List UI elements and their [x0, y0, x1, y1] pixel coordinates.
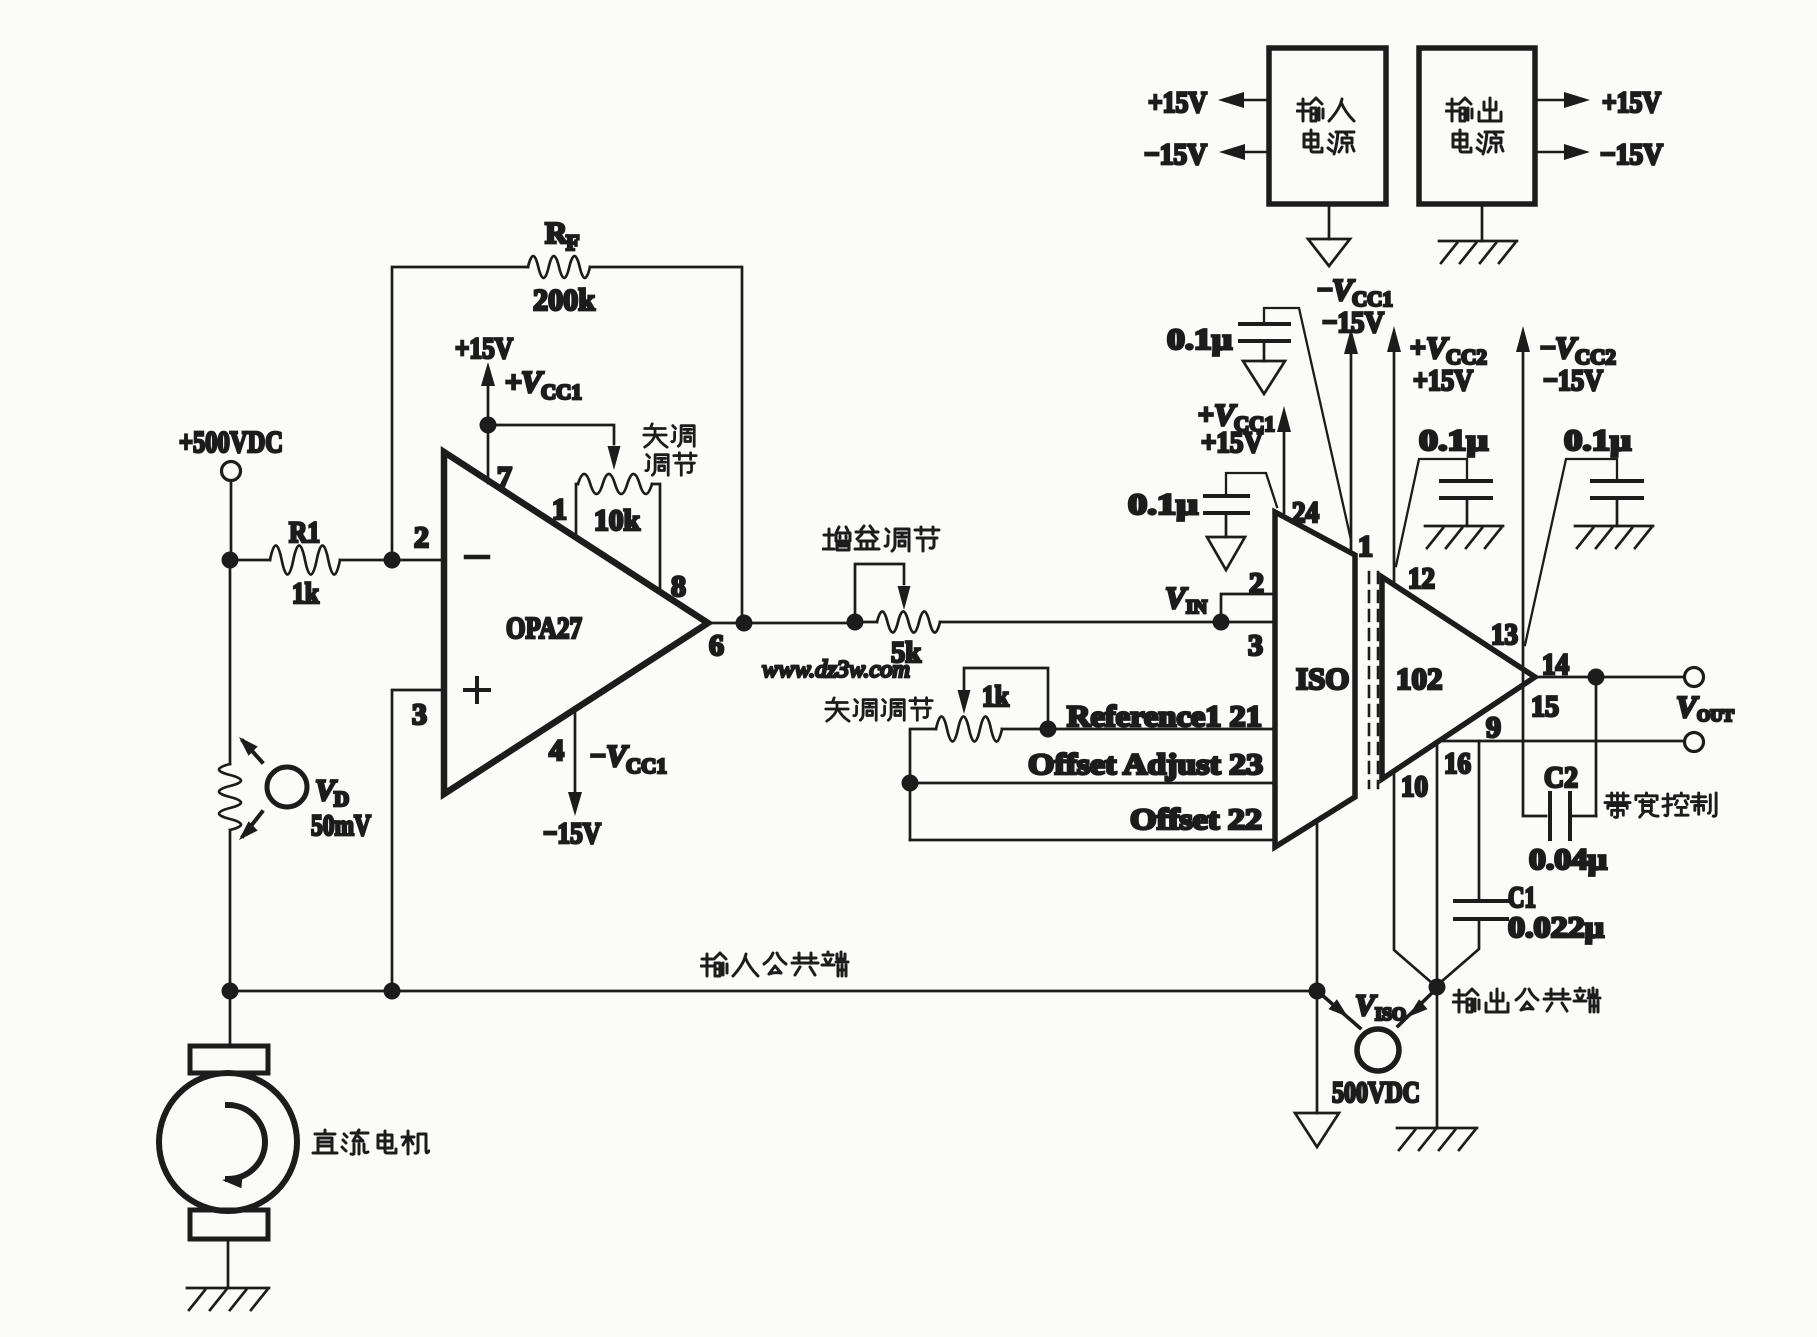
pin 7 label	[497, 461, 512, 494]
pin 8 label	[671, 570, 686, 603]
svg-text:8: 8	[671, 570, 686, 603]
node I offset-adjust junction	[902, 775, 919, 792]
svg-text:12: 12	[1408, 562, 1435, 595]
svg-text:500VDC: 500VDC	[1332, 1076, 1420, 1109]
power -VCC2 -15V arrow at pin 13	[1516, 326, 1616, 816]
wire output box to earth	[1481, 204, 1484, 241]
svg-text:−: −	[1540, 333, 1556, 364]
svg-text:V: V	[1676, 689, 1699, 724]
svg-text:9: 9	[1486, 711, 1501, 744]
svg-text:F: F	[566, 230, 579, 255]
arrow +15V (output box)	[1535, 86, 1661, 119]
label ISO	[1296, 661, 1349, 696]
svg-text:+500VDC: +500VDC	[179, 424, 283, 459]
ground (analog) below 0.1u pin24 cap	[1207, 537, 1245, 570]
svg-text:10k: 10k	[594, 504, 640, 537]
label input power	[1297, 98, 1354, 154]
svg-text:CC1: CC1	[626, 754, 667, 778]
pin 13 label	[1491, 618, 1518, 651]
svg-text:7: 7	[497, 461, 512, 494]
resistor RF 200k	[528, 215, 596, 317]
wire pin 9 line	[1441, 740, 1684, 743]
svg-text:1k: 1k	[292, 577, 319, 610]
svg-text:−: −	[590, 741, 606, 772]
svg-text:ISO: ISO	[1296, 661, 1349, 696]
node M motor junction	[222, 983, 239, 1000]
svg-text:0.1μ: 0.1μ	[1564, 424, 1631, 457]
svg-text:Reference1 21: Reference1 21	[1067, 700, 1262, 733]
power +VCC2 +15V arrow at pin 12	[1387, 326, 1487, 584]
pin 9 label	[1486, 711, 1501, 744]
svg-text:1k: 1k	[982, 680, 1009, 713]
pin 3 label	[412, 698, 427, 731]
capacitor C2 bandwidth	[1529, 685, 1607, 876]
earth ground below 0.1u pin13 cap	[1575, 526, 1653, 548]
svg-text:V: V	[1165, 580, 1188, 615]
terminal VOUT+	[1685, 668, 1704, 687]
svg-text:3: 3	[412, 698, 427, 731]
svg-text:Offset Adjust 23: Offset Adjust 23	[1028, 748, 1263, 781]
svg-text:5k: 5k	[891, 636, 921, 669]
pin 10 label	[1401, 770, 1428, 803]
svg-text:OPA27: OPA27	[506, 610, 582, 645]
wire node C to 10k wiper	[496, 425, 621, 470]
label output common	[1453, 988, 1600, 1012]
wire Reference1 pin 21 line	[1002, 728, 1275, 731]
pin 24 label	[1292, 496, 1319, 529]
pin 4 label	[549, 734, 564, 767]
earth ground below 0.1u pin12 cap	[1425, 526, 1503, 548]
svg-text:+15V: +15V	[1413, 364, 1473, 397]
label input common	[701, 952, 848, 976]
node A junction	[222, 552, 239, 569]
earth ground output common	[1397, 1128, 1477, 1150]
arrow -15V (input box)	[1144, 138, 1269, 171]
capacitor C1	[1441, 741, 1604, 982]
svg-text:IN: IN	[1186, 597, 1207, 618]
source VISO 500VDC	[1322, 989, 1432, 1109]
pin 3 label ISO	[1248, 629, 1263, 662]
svg-text:−15V: −15V	[1144, 138, 1207, 171]
label VIN	[1165, 580, 1207, 618]
node F 5k pot left junction	[847, 614, 864, 631]
label bandwidth control	[1605, 793, 1716, 817]
svg-text:+15V: +15V	[455, 332, 513, 365]
svg-text:−15V: −15V	[543, 817, 601, 850]
terminal +500VDC	[179, 424, 283, 481]
wire input box to ground	[1328, 204, 1331, 239]
svg-text:0.1μ: 0.1μ	[1419, 424, 1488, 457]
resistor R1 1k	[239, 516, 384, 610]
wire 5k to ISO pin 3 (VIN line)	[940, 621, 1275, 624]
node G VIN junction	[1213, 614, 1230, 631]
svg-text:−15V: −15V	[1322, 306, 1384, 339]
svg-text:C1: C1	[1508, 881, 1536, 914]
wire input common to ground	[1316, 1000, 1319, 1113]
pin 1 label	[552, 493, 567, 526]
wire +500VDC down to node A	[230, 481, 233, 553]
pin 1 label ISO	[1358, 530, 1373, 563]
power +VCC1 +15V arrow at pin 24	[1198, 397, 1291, 516]
svg-text:+15V: +15V	[1201, 426, 1263, 459]
label offset adjust (op-amp)	[644, 424, 696, 475]
svg-text:3: 3	[1248, 629, 1263, 662]
node J output junction	[1588, 669, 1605, 686]
svg-text:R: R	[545, 215, 568, 250]
capacitor 0.1u at pin 13	[1525, 424, 1642, 645]
svg-text:R1: R1	[289, 516, 320, 549]
label 102	[1396, 661, 1443, 696]
ISO102 output section	[1382, 577, 1535, 779]
pin 12 label	[1408, 562, 1435, 595]
resistor motor-sense (VD tap)	[219, 764, 241, 830]
label gain adjust	[823, 526, 939, 551]
wire ISO input common stub	[1316, 822, 1319, 983]
power -VCC1 -15V arrow at pin 4	[543, 710, 667, 850]
potentiometer 10k offset null	[576, 474, 660, 590]
terminal VOUT-	[1685, 733, 1704, 752]
op-amp plus sign	[465, 678, 489, 702]
node K output common junction	[1429, 979, 1446, 996]
op-amp U1 OPA27	[444, 452, 708, 794]
svg-text:2: 2	[414, 521, 429, 554]
isolation barrier dashed	[1369, 572, 1378, 788]
wire Offset pin 22 line	[910, 839, 1275, 842]
ground (analog) input box	[1308, 239, 1350, 266]
svg-text:1: 1	[1358, 530, 1373, 563]
svg-text:50mV: 50mV	[311, 809, 371, 842]
svg-text:OUT: OUT	[1697, 706, 1735, 725]
source VD 50mV	[239, 737, 371, 842]
pin 2 label ISO	[1249, 567, 1264, 600]
svg-text:−15V: −15V	[1543, 364, 1603, 397]
label offset adjust (ISO)	[826, 698, 932, 721]
node C pin7 supply junction	[480, 417, 497, 434]
op-amp minus sign	[466, 555, 488, 560]
pin 16 label	[1444, 747, 1471, 780]
label DC motor	[313, 1130, 429, 1154]
wire op-amp output to 5k pot	[708, 622, 848, 625]
label output power	[1446, 98, 1503, 154]
capacitor 0.1u at pin 12	[1396, 424, 1491, 566]
pin 6 label	[709, 629, 724, 662]
svg-text:+15V: +15V	[1148, 86, 1207, 119]
capacitor 0.1u at pin 1	[1167, 308, 1351, 540]
node H reference junction	[1040, 721, 1057, 738]
wire output common to earth	[1436, 996, 1439, 1128]
wire motor to earth	[227, 1239, 230, 1288]
svg-text:0.1μ: 0.1μ	[1167, 323, 1232, 356]
svg-text:200k: 200k	[533, 282, 596, 317]
wire VD resistor down to common	[229, 830, 232, 983]
svg-text:10: 10	[1401, 770, 1428, 803]
svg-text:24: 24	[1292, 496, 1319, 529]
wire feedback up and across	[392, 267, 528, 552]
svg-text:D: D	[334, 787, 349, 811]
pin 15 label	[1531, 690, 1559, 723]
wire common to motor	[229, 999, 232, 1046]
svg-text:2: 2	[1249, 567, 1264, 600]
wire node C down to pin 7	[487, 433, 490, 483]
svg-text:CC1: CC1	[541, 380, 582, 404]
svg-text:ISO: ISO	[1375, 1004, 1406, 1024]
wire Offset Adjust pin 23 line	[910, 782, 1275, 785]
pin 14 label	[1542, 648, 1569, 681]
svg-text:4: 4	[549, 734, 564, 767]
power +15V +VCC1 arrow	[455, 332, 582, 425]
wire pin 16 down to output common	[1436, 744, 1439, 980]
label Reference1 21	[1067, 700, 1262, 733]
wire pin 2 stub of ISO	[1221, 594, 1275, 614]
svg-text:C2: C2	[1544, 761, 1578, 794]
potentiometer 5k gain adjust	[855, 564, 940, 669]
svg-text:Offset 22: Offset 22	[1130, 803, 1262, 836]
svg-text:6: 6	[709, 629, 724, 662]
node L input common junction	[1309, 983, 1326, 1000]
earth ground motor	[187, 1288, 269, 1310]
svg-text:15: 15	[1531, 690, 1559, 723]
svg-text:13: 13	[1491, 618, 1518, 651]
pin 2 label	[414, 521, 429, 554]
label VOUT	[1676, 689, 1735, 725]
wire feedback down to output node	[590, 267, 742, 614]
svg-text:102: 102	[1396, 661, 1443, 696]
wire input common	[230, 990, 1317, 993]
wire pin 10 down to output common	[1394, 772, 1432, 983]
label OPA27	[506, 610, 582, 645]
svg-text:+: +	[1410, 333, 1426, 364]
watermark www.dz3w.com	[762, 657, 910, 683]
power supply box (output)	[1419, 48, 1535, 204]
ISO102 input section	[1275, 512, 1355, 847]
power supply box (input)	[1269, 48, 1386, 204]
power -VCC1 -15V arrow at pin 1	[1317, 272, 1393, 551]
wire VOUT pin 14	[1535, 676, 1684, 679]
ground (analog) below 0.1u pin1 cap	[1243, 361, 1285, 394]
potentiometer 1k ISO offset	[910, 668, 1048, 840]
svg-text:+15V: +15V	[1602, 86, 1661, 119]
motor DC (brushes + body + rotation arrow)	[159, 1046, 297, 1239]
svg-text:0.022μ: 0.022μ	[1508, 911, 1604, 944]
node B inverting input junction	[384, 552, 401, 569]
svg-text:www.dz3w.com: www.dz3w.com	[762, 657, 910, 683]
wire pin 3 stub	[392, 690, 444, 983]
svg-text:1: 1	[552, 493, 567, 526]
svg-text:−: −	[1317, 275, 1333, 306]
capacitor 0.1u at pin 24	[1128, 473, 1277, 537]
node E output junction	[736, 615, 753, 632]
label Offset 22	[1130, 803, 1262, 836]
arrow -15V (output box)	[1535, 138, 1663, 171]
label Offset Adjust 23	[1028, 748, 1263, 781]
svg-text:16: 16	[1444, 747, 1471, 780]
node D pin3 to common	[384, 983, 401, 1000]
wire node B to op-amp pin 2	[400, 559, 444, 562]
ground (analog) input common	[1295, 1113, 1339, 1147]
svg-text:0.04μ: 0.04μ	[1529, 843, 1607, 876]
wire node A down to VD resistor	[229, 568, 232, 764]
earth ground output box	[1439, 241, 1517, 263]
svg-text:−15V: −15V	[1600, 138, 1663, 171]
svg-text:+: +	[505, 366, 522, 399]
svg-text:0.1μ: 0.1μ	[1128, 488, 1198, 521]
arrow +15V (input box)	[1148, 86, 1269, 119]
